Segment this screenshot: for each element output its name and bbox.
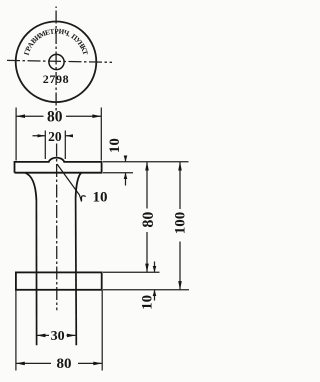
- svg-text:30: 30: [51, 329, 65, 344]
- dim right 80: line: [146, 162, 148, 272]
- dim top 80: arrows: [16, 114, 101, 118]
- dim top 80: right ext: [100, 108, 102, 161]
- dim 20: exts: [45, 131, 65, 160]
- svg-text:10: 10: [139, 295, 155, 310]
- dim bottom 80: line: [16, 362, 102, 364]
- svg-text:80: 80: [140, 212, 157, 228]
- svg-text:100: 100: [172, 212, 188, 235]
- leader line to fillet: [57, 164, 86, 202]
- svg-text:80: 80: [57, 356, 72, 372]
- cap top ext line: [103, 161, 189, 163]
- cap bottom ext line: [103, 172, 133, 174]
- horizontal centerline of disk: [7, 60, 112, 62]
- dim 30: arrows: [37, 334, 76, 338]
- column left edge: [35, 200, 37, 345]
- right fillet: [76, 173, 82, 198]
- slab right ext line down: [101, 290, 103, 371]
- svg-text:80: 80: [47, 109, 63, 126]
- svg-text:20: 20: [48, 129, 62, 144]
- dim right 100: line: [179, 162, 181, 290]
- curved label ГРАВИМЕТРИЧ. ПУНКТ: [23, 27, 90, 56]
- left fillet: [25, 173, 36, 200]
- slab top ext line: [103, 271, 160, 273]
- dim cap 10: line: [125, 157, 127, 186]
- marker disk outer circle: [16, 22, 97, 103]
- slab bottom ext line: [103, 289, 189, 291]
- dim slab 10: arrows: [153, 266, 157, 296]
- dim 20: line tails: [33, 135, 72, 137]
- dim 30: line: [37, 334, 76, 336]
- slab left ext line down: [15, 290, 17, 371]
- vertical centerline of disk: [55, 7, 57, 112]
- column right edge: [75, 198, 78, 345]
- base slab: [16, 272, 102, 289]
- dim slab 10: line: [154, 262, 156, 301]
- cap outline with bump: [15, 158, 102, 173]
- dim top 80: line: [16, 115, 101, 117]
- dim cap 10: arrows: [124, 156, 128, 180]
- dim right 80: arrows: [145, 162, 149, 272]
- svg-text:2798: 2798: [43, 72, 69, 86]
- svg-text:10: 10: [107, 138, 123, 153]
- marker disk center hole: [49, 54, 64, 69]
- dim bottom 80: arrows: [16, 362, 102, 366]
- dim top 80: left ext: [15, 108, 17, 161]
- dim 20: arrows: [38, 134, 74, 137]
- pillar centerline: [56, 144, 58, 311]
- svg-text:10: 10: [93, 190, 108, 206]
- dim right 100: arrows: [178, 162, 182, 290]
